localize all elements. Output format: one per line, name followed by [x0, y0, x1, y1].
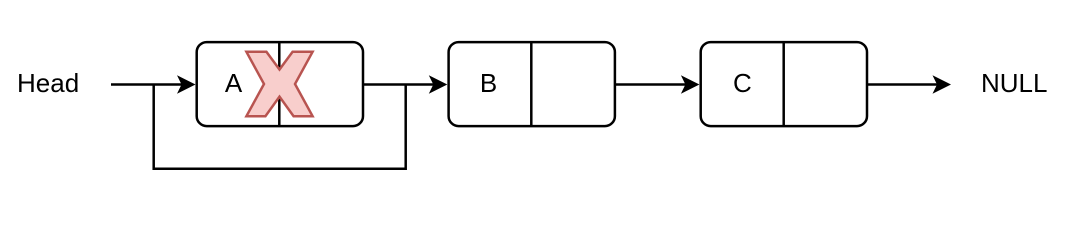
- node C box: [701, 42, 867, 126]
- wire node C to NULL: [867, 83, 939, 86]
- svg-text:C: C: [733, 68, 752, 98]
- arrowhead toward NULL: [933, 75, 952, 93]
- arrowhead into node C: [681, 75, 700, 93]
- wire node A to node B: [363, 83, 435, 86]
- node C divider: [782, 42, 785, 126]
- svg-text:NULL: NULL: [981, 68, 1047, 98]
- node A box: [197, 42, 363, 126]
- wire bypass around node A: [154, 85, 406, 169]
- arrowhead into node A: [177, 75, 196, 93]
- wire node B to node C: [615, 83, 687, 86]
- red X over node A: [246, 52, 312, 116]
- node B divider: [530, 42, 533, 126]
- svg-text:B: B: [480, 68, 497, 98]
- node B box: [449, 42, 615, 126]
- wire Head to node A: [111, 83, 182, 86]
- svg-text:A: A: [225, 68, 243, 98]
- node A divider: [278, 42, 281, 126]
- svg-text:Head: Head: [17, 68, 79, 98]
- arrowhead into node B: [429, 75, 448, 93]
